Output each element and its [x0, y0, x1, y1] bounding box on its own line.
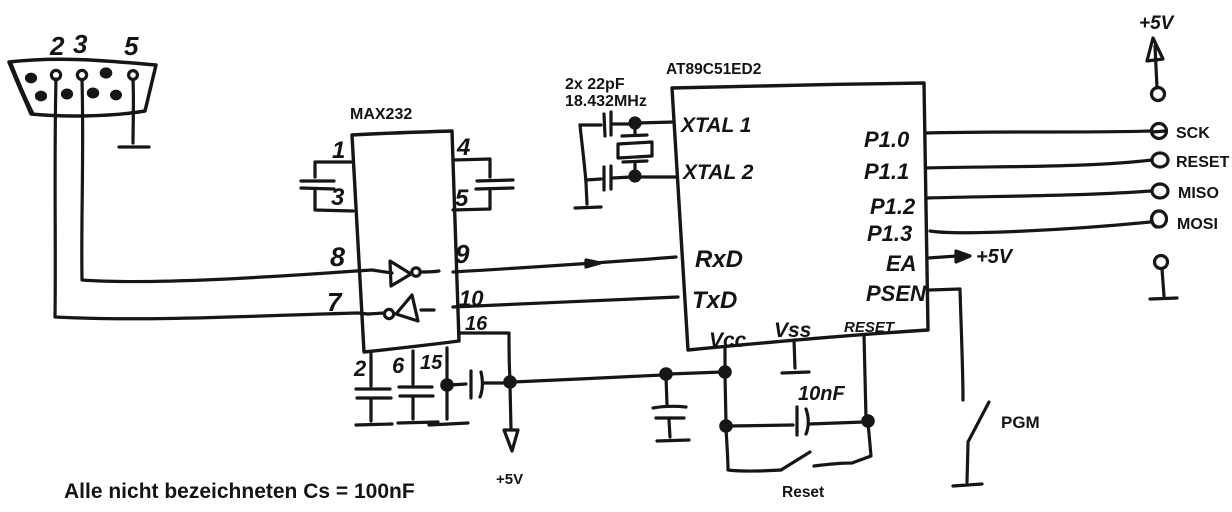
wire U2 P1.3 to MOSI — [930, 222, 1150, 233]
wire C4 to rail — [586, 179, 601, 180]
switch S1 Reset left leg — [726, 429, 781, 471]
svg-text:+5V: +5V — [976, 246, 1014, 268]
switch S1 Reset right contact — [814, 424, 871, 466]
capacitor C7 plates (pin6) — [399, 387, 433, 396]
wire U2 XTAL2 pin — [639, 175, 676, 178]
svg-text:Vcc: Vcc — [709, 329, 747, 352]
svg-text:5: 5 — [124, 31, 139, 61]
svg-text:18.432MHz: 18.432MHz — [565, 93, 647, 110]
ground (C6) — [356, 424, 392, 425]
wire C7 to ground — [411, 398, 414, 419]
wire +5V arrow to circle — [1155, 46, 1157, 88]
svg-text:5: 5 — [455, 185, 469, 212]
wire left rail — [580, 125, 587, 204]
wire C8 to ground — [669, 420, 670, 437]
ground (PGM) — [953, 484, 982, 486]
capacitor C2 plates — [476, 180, 513, 189]
wire MAX232 pin8 stub to inverter input — [356, 270, 372, 271]
svg-text:MAX232: MAX232 — [350, 106, 412, 123]
wire C1 to pin3 — [315, 191, 353, 211]
wire 10nF right — [809, 422, 864, 424]
wire MAX232 pin9 to U2 RxD — [453, 257, 676, 272]
wire J1 pin2 to MAX232 pin7 — [55, 79, 358, 319]
node pin15 junction — [442, 380, 452, 390]
wire XTAL1 node to C3 — [613, 122, 631, 125]
svg-text:2: 2 — [353, 356, 367, 381]
pin header ground circle (right) — [1155, 256, 1168, 269]
node Vcc junction — [720, 367, 730, 377]
switch S2 PGM blade — [968, 402, 989, 442]
node 10nF left junction — [721, 421, 731, 431]
svg-text:EA: EA — [886, 251, 917, 276]
wire C5 to +5V node — [483, 381, 506, 384]
ground (J1 pin5) — [119, 145, 149, 148]
crystal X1 — [618, 126, 652, 173]
capacitor C2 (MAX232 4-5) bracket — [453, 159, 490, 177]
wire MAX232 pin6 stub — [411, 351, 414, 384]
svg-text:Vss: Vss — [774, 319, 811, 342]
J1 pin 2 dot — [51, 70, 60, 79]
svg-text:RESET: RESET — [1176, 154, 1230, 171]
svg-text:2: 2 — [49, 31, 65, 61]
J1 pin 3 dot — [77, 70, 86, 79]
IC U2 AT89C51ED2 body — [672, 83, 928, 350]
pin MOSI circle — [1152, 211, 1167, 227]
capacitor C5 plates — [471, 371, 482, 398]
wire XTAL2 node to C4 — [613, 177, 631, 178]
IC U1 MAX232 body — [352, 131, 459, 352]
ground (C8) — [657, 440, 689, 441]
capacitor C9 10nF plates — [797, 407, 808, 435]
wire MAX232 pin7 stub — [358, 313, 368, 314]
wire U2 EA stub — [928, 256, 957, 258]
inverter U1B (R1) — [368, 295, 434, 321]
svg-text:XTAL 2: XTAL 2 — [682, 161, 754, 184]
svg-text:RESET: RESET — [844, 319, 896, 336]
switch S1 Reset blade — [781, 452, 810, 470]
arrowhead on RxD wire — [586, 260, 600, 267]
wire +5V node to Vcc rail — [513, 375, 663, 382]
wire C2 to pin5 — [453, 191, 490, 210]
ground (C7) — [398, 422, 438, 423]
svg-text:RxD: RxD — [695, 246, 743, 273]
svg-text:3: 3 — [73, 29, 88, 59]
wire U2 P1.1 to RESET — [926, 160, 1152, 168]
svg-text:PGM: PGM — [1001, 413, 1040, 432]
wire U2 Vcc pin — [723, 347, 726, 369]
ground (Vss) — [782, 372, 809, 373]
wire circle to ground — [1162, 269, 1164, 296]
J1 pin 6 dot — [37, 92, 46, 100]
capacitor C8 plates — [653, 406, 686, 418]
svg-text:16: 16 — [465, 313, 488, 335]
wire U2 RESET pin — [864, 335, 866, 418]
+5V supply arrow (down) — [504, 430, 518, 451]
wire pin15 node down to ground — [445, 388, 448, 419]
ground (right header) — [1150, 298, 1177, 299]
svg-text:MISO: MISO — [1178, 185, 1219, 202]
pin header +5V circle (top right) — [1152, 88, 1165, 101]
wire C8 node to Vcc node — [669, 372, 722, 374]
wire MAX232 pin16 — [460, 333, 510, 379]
pin MISO circle — [1152, 184, 1168, 198]
J1 pin 8 dot — [88, 89, 97, 97]
wire MAX232 pin15 stub — [445, 348, 448, 382]
wire U2 XTAL1 pin — [637, 122, 674, 123]
capacitor C1 (MAX232 1-3) bracket — [315, 162, 352, 177]
wire J1 pin5 to ground — [131, 80, 135, 143]
svg-text:1: 1 — [332, 137, 345, 164]
svg-text:6: 6 — [392, 353, 405, 378]
svg-text:XTAL 1: XTAL 1 — [680, 114, 751, 137]
svg-text:9: 9 — [455, 239, 470, 269]
svg-text:MOSI: MOSI — [1177, 216, 1218, 233]
switch S2 PGM lower leg — [967, 444, 968, 482]
wire J1 pin3 to MAX232 pin8 — [82, 80, 356, 282]
connector J1 DB9 body — [9, 59, 156, 116]
wire U2 P1.0 to SCK — [926, 131, 1151, 133]
wire C6 to ground — [369, 400, 372, 421]
J1 pin 1 dot — [27, 74, 36, 82]
pin RESET circle — [1152, 153, 1168, 167]
inverter U1A (T1) — [372, 261, 439, 286]
ground (pin15) — [429, 423, 468, 425]
node XTAL2 junction — [630, 171, 640, 181]
node 10nF right junction — [863, 416, 873, 426]
svg-text:TxD: TxD — [692, 287, 737, 314]
svg-text:PSEN: PSEN — [866, 281, 927, 306]
svg-text:P1.2: P1.2 — [870, 194, 916, 219]
svg-text:10: 10 — [459, 286, 484, 311]
capacitor C4 plates (22pF) — [604, 166, 611, 190]
wire pin15 node to C5 — [450, 384, 466, 385]
svg-text:4: 4 — [456, 134, 470, 161]
wire U2 PSEN to PGM switch — [930, 289, 963, 400]
node +5V junction — [505, 377, 515, 387]
capacitor C1 plates — [301, 181, 334, 189]
+5V supply arrow (top right) — [1147, 38, 1163, 61]
wire 10nF left — [729, 425, 793, 426]
pin SCK circle — [1152, 124, 1167, 139]
svg-text:P1.1: P1.1 — [864, 159, 909, 184]
svg-text:7: 7 — [327, 287, 343, 317]
svg-text:3: 3 — [331, 184, 345, 211]
wire C3 to rail — [580, 123, 601, 126]
node XTAL1 junction — [630, 118, 640, 128]
J1 pin 9 dot — [112, 91, 121, 99]
capacitor C3 plates (22pF) — [604, 112, 611, 136]
svg-text:15: 15 — [420, 352, 443, 374]
capacitor C6 plates (pin2) — [356, 389, 391, 398]
svg-text:AT89C51ED2: AT89C51ED2 — [666, 61, 761, 78]
svg-text:Reset: Reset — [782, 484, 824, 501]
svg-text:SCK: SCK — [1176, 125, 1210, 142]
wire Vcc node down to 10nF node — [725, 375, 726, 423]
wire U2 Vss pin — [794, 340, 795, 368]
wire MAX232 pin2 stub — [369, 354, 372, 386]
svg-text:10nF: 10nF — [798, 383, 845, 405]
J1 pin 5 dot — [129, 71, 138, 80]
svg-text:P1.0: P1.0 — [864, 127, 910, 152]
J1 pin 4 dot — [101, 69, 110, 77]
wire MAX232 pin10 to U2 TxD — [453, 297, 678, 307]
svg-text:8: 8 — [330, 242, 345, 272]
arrowhead EA +5V — [956, 251, 970, 262]
svg-text:Alle nicht bezeichneten Cs = 1: Alle nicht bezeichneten Cs = 100nF — [64, 480, 415, 503]
wire U2 P1.2 to MISO — [927, 191, 1151, 198]
ground (crystal rail) — [575, 207, 601, 208]
node C8 junction — [661, 369, 671, 379]
wire C8 node down — [666, 377, 667, 404]
wire +5V node down to arrow — [510, 385, 511, 429]
svg-text:+5V: +5V — [1139, 13, 1175, 34]
svg-text:P1.3: P1.3 — [867, 221, 912, 246]
svg-text:+5V: +5V — [496, 471, 523, 488]
J1 pin 7 dot — [63, 90, 72, 98]
svg-text:2x 22pF: 2x 22pF — [565, 76, 625, 93]
